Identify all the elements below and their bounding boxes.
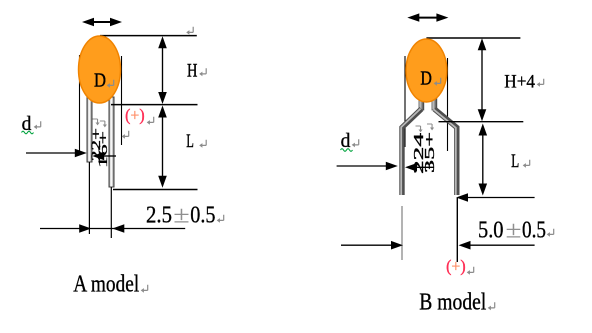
wire: lead spacing dimension line (A) xyxy=(40,224,185,233)
paragraph mark after H (A) xyxy=(199,68,206,76)
paragraph mark after d (B) xyxy=(352,139,359,147)
grammar squiggle under d (A) xyxy=(22,131,34,134)
lead left (A) xyxy=(87,97,92,162)
svg-text:H+4: H+4 xyxy=(504,72,535,93)
svg-text:±: ± xyxy=(506,217,522,244)
wire: extension below right lead (A) xyxy=(110,187,112,238)
wire: top reference line (A) xyxy=(100,35,197,37)
svg-text:5.0: 5.0 xyxy=(478,217,504,244)
svg-text:0.5: 0.5 xyxy=(522,217,546,244)
svg-text:16+: 16+ xyxy=(95,131,110,168)
svg-text:D: D xyxy=(94,69,106,91)
svg-text:2.5: 2.5 xyxy=(146,202,172,229)
wire: d dimension right arrow (A) xyxy=(92,152,116,161)
wire: L bottom reference line with arrow (B) xyxy=(456,193,535,202)
svg-text:±: ± xyxy=(173,202,190,229)
dimension H arrow (A) xyxy=(158,36,167,104)
dimension L arrow (A) xyxy=(158,106,167,188)
wire: right tangent extension line (B) xyxy=(447,58,449,151)
dimension L arrow (B) xyxy=(479,124,488,196)
wire: d dimension left arrow (B) xyxy=(337,162,398,171)
paragraph mark after d (A) xyxy=(34,121,41,129)
wire: extension below left lead (B) xyxy=(401,206,403,260)
svg-text:H: H xyxy=(187,61,198,82)
wire: d dimension left arrow (A) xyxy=(26,149,87,158)
wire: lead spacing dimension right segment (B) xyxy=(459,241,535,250)
wire: L bottom reference line (A) xyxy=(113,189,198,191)
capacitor body (B) xyxy=(406,39,447,102)
lead right (A) xyxy=(109,97,114,187)
wire: mid reference line (A) xyxy=(111,104,198,106)
paragraph mark after (+) (A) xyxy=(147,117,154,125)
paragraph mark after 2.5±0.5 (A) xyxy=(217,215,224,223)
lead left bend+vertical (B) xyxy=(401,109,421,195)
capacitor body (A) xyxy=(79,36,121,103)
svg-text:(+): (+) xyxy=(446,257,466,276)
rotated paragraph mark col1 (A) xyxy=(93,119,100,125)
paragraph mark after L (B) xyxy=(523,160,530,168)
wire: right tangent extension line (A) xyxy=(121,56,123,145)
svg-text:(+): (+) xyxy=(125,106,144,125)
rotated paragraph mark col2 (A) xyxy=(100,121,107,127)
wire: left tangent extension line (B) xyxy=(404,56,406,147)
wire: lead spacing dimension left segment (B) xyxy=(341,241,403,250)
svg-text:L: L xyxy=(186,131,194,152)
wire: mid reference line (B) xyxy=(439,121,524,123)
svg-text:0.5: 0.5 xyxy=(190,202,215,229)
wire: left tangent extension line (A) xyxy=(79,55,81,152)
dimension H+4 arrow (B) xyxy=(478,38,487,121)
paragraph mark after top line (A) xyxy=(186,27,193,35)
wire: extension below right lead (B) xyxy=(456,198,458,262)
paragraph mark after (+) (B) xyxy=(467,267,474,275)
rotated paragraph mark col1 (B) xyxy=(416,126,423,132)
wire: extension below left lead (A) xyxy=(88,162,90,234)
wire: top reference line (B) xyxy=(426,37,520,39)
paragraph mark after D (A) xyxy=(107,80,114,88)
paragraph mark after L (A) xyxy=(199,140,206,148)
paragraph mark after H+4 (B) xyxy=(537,79,544,87)
rotated paragraph mark col2 (B) xyxy=(427,124,434,130)
lead right bend+vertical (B) xyxy=(434,109,457,195)
wire: d dimension right arrow (B) xyxy=(405,163,434,172)
wire: D width double arrow (A) xyxy=(82,18,122,26)
svg-text:L: L xyxy=(511,151,519,172)
svg-text:B model: B model xyxy=(419,288,486,315)
svg-text:D: D xyxy=(420,68,432,90)
paragraph mark after 5.0±0.5 (B) xyxy=(547,229,554,237)
paragraph mark after A model xyxy=(141,285,148,293)
svg-text:A model: A model xyxy=(73,271,139,298)
paragraph mark after B model xyxy=(488,302,495,310)
lead right stub (B) xyxy=(432,96,437,110)
grammar squiggle under d (B) xyxy=(341,149,353,152)
lead left stub (B) xyxy=(419,96,424,110)
stray paragraph mark (A) xyxy=(122,131,129,139)
paragraph mark after D (B) xyxy=(434,78,441,86)
wire: D width double arrow (B) xyxy=(407,13,448,21)
